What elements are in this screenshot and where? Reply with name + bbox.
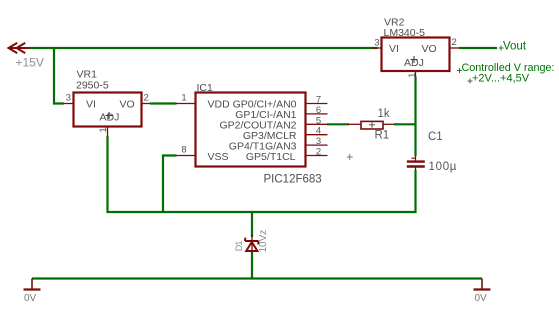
svg-text:GP5/T1CL: GP5/T1CL xyxy=(246,151,296,163)
capacitor C1 xyxy=(407,156,425,172)
svg-text:0V: 0V xyxy=(24,293,37,304)
svg-text:C1: C1 xyxy=(428,131,443,143)
svg-text:10Vz: 10Vz xyxy=(258,230,269,253)
IC U1 PIC12F683 xyxy=(176,93,328,167)
svg-text:100µ: 100µ xyxy=(429,161,458,173)
wire Vout xyxy=(459,47,497,49)
svg-text:1k: 1k xyxy=(378,108,390,120)
svg-text:LM340-5: LM340-5 xyxy=(384,27,426,39)
svg-text:8: 8 xyxy=(181,145,186,156)
svg-text:0V: 0V xyxy=(475,293,488,304)
svg-text:7: 7 xyxy=(316,95,321,106)
svg-text:VO: VO xyxy=(120,98,135,110)
wire GP2 to R1 xyxy=(327,123,349,125)
svg-text:2: 2 xyxy=(316,147,321,158)
svg-text:3: 3 xyxy=(66,93,71,104)
svg-text:Vout: Vout xyxy=(503,41,527,53)
wire R1 to ADJ column xyxy=(394,123,417,125)
svg-text:2950-5: 2950-5 xyxy=(76,80,109,92)
svg-text:2: 2 xyxy=(452,37,457,48)
svg-text:4: 4 xyxy=(316,126,321,137)
wire bottom rail xyxy=(32,277,482,279)
label Vout xyxy=(499,41,527,53)
wire top rail xyxy=(30,47,378,49)
voltage regulator VR2 xyxy=(372,37,460,78)
svg-text:R1: R1 xyxy=(375,130,390,142)
svg-text:VDD: VDD xyxy=(208,98,231,110)
ground right xyxy=(474,279,491,290)
wire D1 bottom xyxy=(251,252,253,279)
wire mid rail xyxy=(107,211,417,213)
wire drop to VR1 input xyxy=(54,48,64,104)
svg-text:+2V...+4,5V: +2V...+4,5V xyxy=(472,73,530,85)
svg-text:3: 3 xyxy=(316,136,321,147)
annotation controlled V range xyxy=(457,62,555,85)
svg-text:D1: D1 xyxy=(234,241,244,252)
svg-text:+15V: +15V xyxy=(16,56,44,70)
wire VR1 ADJ down xyxy=(106,136,108,213)
wire IC1 VSS down xyxy=(163,156,177,214)
svg-text:PIC12F683: PIC12F683 xyxy=(264,174,322,186)
origin cross near pin2 xyxy=(347,154,353,160)
svg-text:VO: VO xyxy=(422,43,437,55)
svg-text:VSS: VSS xyxy=(208,151,229,163)
svg-text:1: 1 xyxy=(98,127,109,132)
resistor R1 xyxy=(348,121,395,129)
voltage regulator VR1 xyxy=(64,93,152,137)
svg-text:5: 5 xyxy=(316,115,321,126)
svg-text:3: 3 xyxy=(374,38,379,49)
svg-text:1: 1 xyxy=(181,93,186,104)
svg-text:VI: VI xyxy=(389,43,399,55)
svg-text:IC1: IC1 xyxy=(197,82,214,94)
supply arrow +15V xyxy=(9,43,31,53)
diode D1 zener 10Vz xyxy=(245,235,259,253)
wire D1 top xyxy=(251,212,253,237)
wire VR2 ADJ column down xyxy=(414,77,416,157)
svg-text:6: 6 xyxy=(316,105,321,116)
svg-text:VI: VI xyxy=(86,98,96,110)
svg-text:2: 2 xyxy=(144,93,149,104)
ground left xyxy=(24,279,41,290)
wire C1 to mid rail xyxy=(414,170,416,213)
wire VR1 output to IC1 VDD xyxy=(150,102,177,104)
